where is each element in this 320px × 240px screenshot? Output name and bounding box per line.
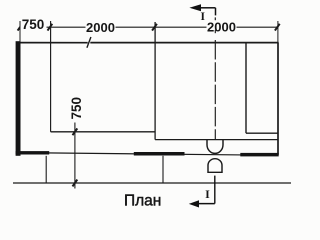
wire vertical dimension line 750 [74,123,76,189]
wall top (right of break) [90,42,278,44]
section marker top: arrowhead [189,4,201,11]
node tick at x20 [18,24,23,31]
node tick at (74.9,131.8) [73,128,78,135]
wall top (left of break) [16,42,88,44]
node tick at x277.3 [275,24,280,31]
section marker bottom: arrowhead [189,200,199,207]
section marker top: vertical drop [215,8,217,16]
door leaf upper [207,140,223,154]
label 750 vertical [69,95,84,122]
wall bottom thin face line [20,153,278,156]
break mark [87,37,91,48]
wire bottom reference line [13,182,291,184]
label 2000 first [86,20,116,35]
partition horizontal left room [51,131,156,133]
wire extension below wall x46 [45,156,47,184]
wire extension+partition line x155 [154,22,156,140]
wire extension+partition line x50 [50,21,52,132]
svg-text:750: 750 [69,97,84,120]
wire extension line left x20 [19,21,21,42]
wall bottom poche segment right [240,153,278,157]
partition right room vertical [245,43,247,134]
svg-text:I: I [201,11,206,23]
section marker bottom: vertical [214,176,216,204]
section marker top: dash below [214,17,216,20]
wire top dimension line [20,26,277,28]
svg-text:750: 750 [22,17,45,32]
section cut dashed line [214,40,216,139]
wall right [277,43,279,155]
wall left (thick poche) [16,41,21,156]
wall bottom poche segment middle [134,152,185,156]
wire extension below wall x163 [162,156,164,184]
svg-text:2000: 2000 [86,20,115,35]
section marker bottom: tail line [198,203,215,205]
section cut dash above wall [214,30,216,33]
wall bottom inner face line [155,139,278,141]
label 750 top [21,17,47,32]
wire extension line right x277.8 [277,21,279,43]
section marker top: tail line [200,7,216,9]
wall bottom poche segment left [16,151,50,154]
node tick at x154.5 [152,24,157,31]
node tick at x50 [48,24,53,31]
svg-text:План: План [124,192,161,209]
svg-text:2000: 2000 [207,20,236,35]
node tick at (74.9,183) [73,180,78,187]
label 2000 second [207,20,237,35]
door leaf lower [208,159,222,173]
partition right room horizontal [246,132,278,134]
svg-text:I: I [205,187,210,201]
